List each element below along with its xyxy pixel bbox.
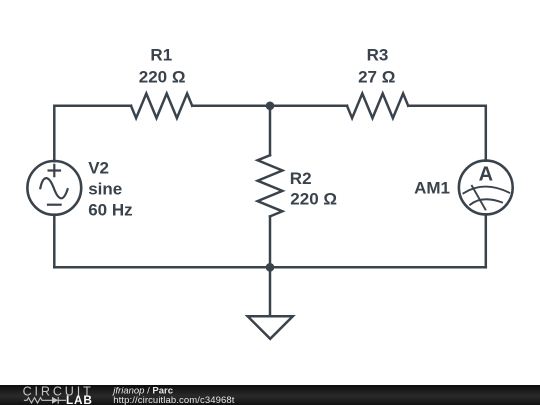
wire: node B down to ground [269, 267, 272, 316]
svg-text:220 Ω: 220 Ω [290, 190, 337, 209]
svg-text:LAB: LAB [66, 393, 93, 405]
svg-text:220 Ω: 220 Ω [139, 68, 186, 87]
svg-text:http://circuitlab.com/c34968t: http://circuitlab.com/c34968t [113, 395, 234, 405]
node B junction dot [266, 263, 275, 272]
svg-text:R3: R3 [367, 46, 389, 65]
svg-text:AM1: AM1 [414, 179, 450, 198]
wire: bottom rail up to V2 bottom terminal [53, 215, 56, 268]
ground [248, 316, 293, 339]
svg-text:R2: R2 [290, 169, 312, 188]
svg-text:R1: R1 [150, 46, 172, 65]
wire: bottom rail [54, 266, 486, 269]
resistor R1 [131, 94, 192, 119]
svg-text:27 Ω: 27 Ω [358, 68, 395, 87]
svg-text:V2: V2 [88, 159, 109, 178]
wire: R3 across and down to AM1 [408, 106, 486, 161]
svg-text:60 Hz: 60 Hz [88, 201, 132, 220]
svg-text:sine: sine [88, 179, 122, 198]
resistor R2 [258, 155, 283, 216]
ammeter AM1 [459, 161, 513, 215]
CircuitLab logo circuit line with resistor and diode [24, 397, 66, 404]
wire: V2 top terminal up and across to R1 [54, 106, 131, 161]
wire: R1 to node A [192, 105, 270, 108]
wire: node A to R3 [270, 105, 347, 108]
svg-text:A: A [479, 163, 493, 185]
node A junction dot [266, 102, 275, 111]
wire: node A down to R2 [269, 106, 272, 155]
wire: AM1 bottom terminal to bottom rail [485, 214, 488, 267]
wire: R2 to node B [269, 216, 272, 267]
voltage source V2 [27, 161, 81, 215]
resistor R3 [347, 94, 408, 119]
